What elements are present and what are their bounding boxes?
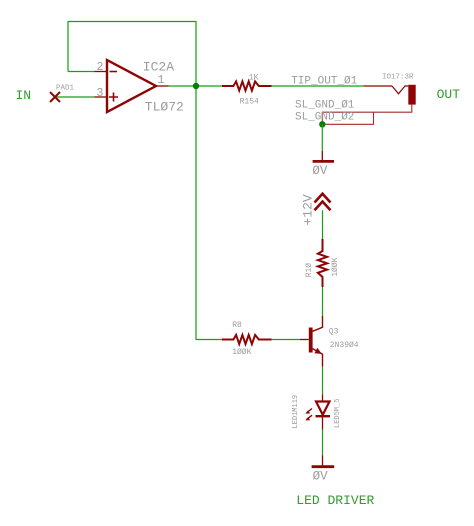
- transistor Q3 emitter: [313, 349, 323, 367]
- ground 2 symbol 0V: [312, 465, 335, 468]
- op-amp pin 3 stub: [94, 96, 107, 98]
- LED cathode pin stub: [322, 416, 324, 429]
- svg-text:IO17:3R: IO17:3R: [382, 74, 414, 82]
- svg-text:LED5M_5: LED5M_5: [334, 399, 342, 428]
- svg-text:1: 1: [158, 74, 165, 87]
- svg-text:TIP_OUT_Ø1: TIP_OUT_Ø1: [291, 76, 357, 88]
- connector pad bar IO17:3R: [408, 85, 415, 105]
- wire feedback top loop: [68, 22, 196, 87]
- svg-text:SL_GND_Ø1: SL_GND_Ø1: [295, 99, 355, 111]
- svg-text:IC2A: IC2A: [143, 60, 174, 75]
- LED cathode bar: [316, 415, 331, 417]
- pad PAD1 cross: [50, 92, 60, 102]
- op-amp pin 2 stub: [94, 71, 107, 73]
- wire +12V to R10: [322, 210, 324, 239]
- transistor Q3 base bar: [309, 328, 313, 353]
- svg-text:R154: R154: [240, 98, 259, 107]
- wire R154 to connector (TIP_OUT_01): [272, 85, 364, 87]
- transistor Q3 collector: [313, 316, 323, 331]
- svg-text:1ØØK: 1ØØK: [232, 348, 251, 357]
- ground 1 symbol 0V: [313, 160, 334, 163]
- wire vertical from output junction down to R8: [196, 86, 222, 340]
- op-amp pin 1 stub: [156, 85, 169, 87]
- ground 2 pin stub: [322, 456, 324, 466]
- svg-text:1ØØK: 1ØØK: [331, 257, 340, 276]
- svg-text:3: 3: [97, 87, 104, 100]
- ground 1 pin stub: [321, 151, 323, 160]
- svg-text:TLØ72: TLØ72: [145, 100, 184, 115]
- wire Q3 emitter to LED: [322, 367, 324, 395]
- svg-text:2N39Ø4: 2N39Ø4: [330, 341, 359, 350]
- transistor Q3 base pin stub: [300, 339, 309, 341]
- connector chevron: [392, 86, 408, 94]
- svg-text:ØV: ØV: [313, 470, 329, 484]
- wire R10 to Q3 collector: [322, 287, 324, 316]
- resistor R8 zigzag: [222, 335, 272, 344]
- resistor R10 zigzag vertical: [318, 239, 327, 287]
- svg-text:SL_GND_Ø2: SL_GND_Ø2: [295, 111, 354, 123]
- svg-text:LED1M119: LED1M119: [292, 395, 300, 429]
- svg-text:2: 2: [97, 61, 104, 74]
- wire R8 to Q3 base: [259, 339, 300, 341]
- LED light arrow 2: [307, 415, 312, 419]
- supply +12V chevrons: [315, 194, 331, 211]
- svg-text:ØV: ØV: [312, 164, 328, 178]
- op-amp minus mark: [110, 71, 118, 73]
- wire pin2 net segment: [68, 71, 94, 73]
- svg-text:1K: 1K: [249, 74, 259, 83]
- svg-text:OUT: OUT: [437, 87, 461, 102]
- svg-text:Q3: Q3: [329, 328, 339, 337]
- wire op-amp output to R154: [169, 85, 222, 87]
- wire input net from pad: [55, 96, 94, 98]
- node junction SL_GND: [319, 121, 325, 127]
- svg-text:R1Ø: R1Ø: [305, 263, 314, 278]
- svg-text:R8: R8: [232, 321, 242, 330]
- svg-text:IN: IN: [16, 88, 32, 103]
- transistor Q3 emitter arrow: [314, 348, 321, 354]
- op-amp U IC2A triangle: [107, 60, 156, 112]
- node junction at op-amp output: [193, 83, 199, 89]
- svg-text:+12V: +12V: [301, 194, 316, 225]
- LED light arrow 1: [307, 409, 312, 413]
- LED triangle: [316, 402, 330, 415]
- svg-text:LED DRIVER: LED DRIVER: [296, 493, 374, 508]
- wire SL_GND_02: [322, 112, 373, 124]
- wire junction to ground 1: [321, 124, 323, 151]
- connector pin wire maroon: [364, 85, 393, 87]
- resistor R154 zigzag: [222, 81, 272, 90]
- wire SL_GND_01 from connector bar: [322, 105, 412, 125]
- svg-text:PAD1: PAD1: [56, 85, 75, 93]
- op-amp plus mark: [109, 93, 118, 102]
- wire LED to ground 2: [322, 430, 324, 456]
- LED anode pin stub: [322, 395, 324, 402]
